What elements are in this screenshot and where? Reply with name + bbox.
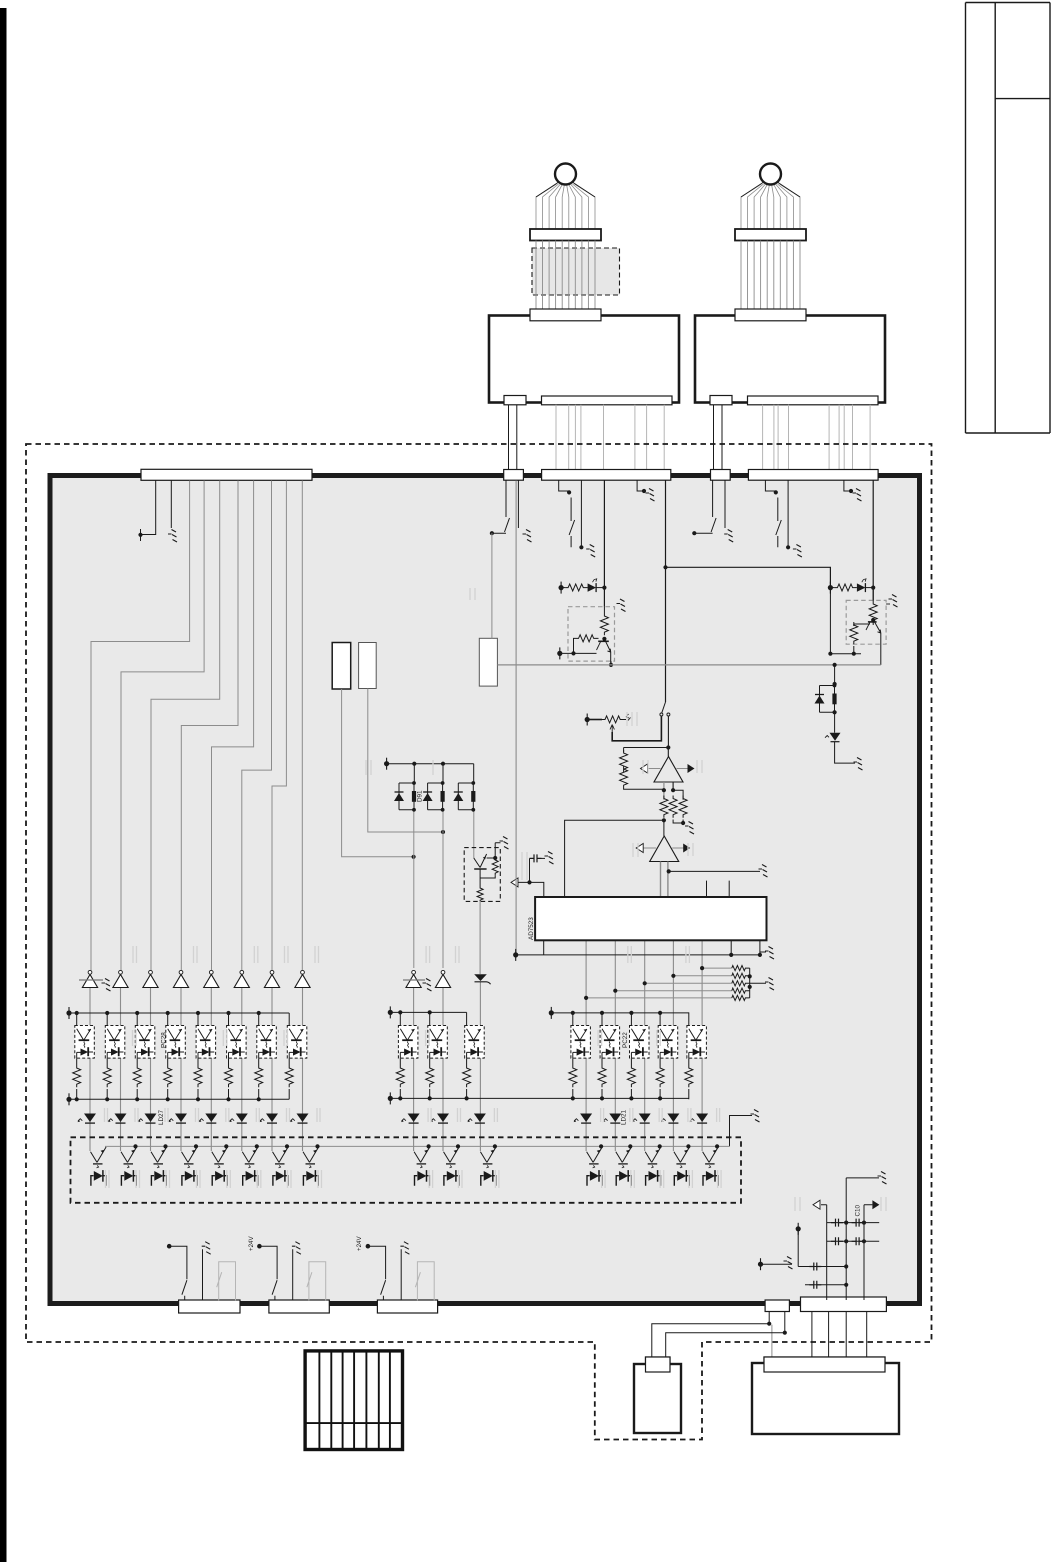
svg-text:PC22: PC22 xyxy=(622,1032,629,1048)
svg-text:LD27: LD27 xyxy=(158,1109,165,1125)
svg-text:LD21: LD21 xyxy=(621,1109,628,1125)
svg-text:+24V: +24V xyxy=(248,1236,255,1251)
svg-text:D91: D91 xyxy=(417,790,424,802)
svg-text:C10: C10 xyxy=(855,1204,862,1216)
svg-text:AD7523: AD7523 xyxy=(528,917,535,940)
svg-text:PC28: PC28 xyxy=(161,1032,168,1048)
svg-text:+24V: +24V xyxy=(356,1236,363,1251)
